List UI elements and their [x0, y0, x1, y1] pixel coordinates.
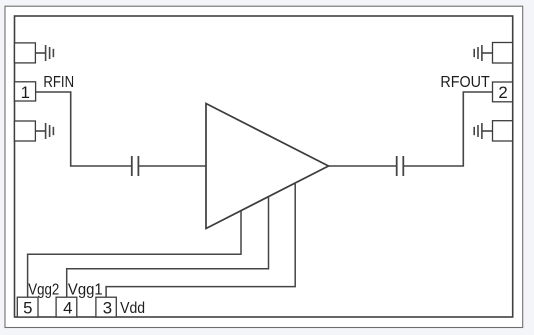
svg-text:Vgg2: Vgg2 — [28, 281, 59, 298]
svg-text:5: 5 — [23, 299, 32, 318]
svg-text:2: 2 — [498, 83, 507, 102]
svg-text:1: 1 — [21, 83, 30, 102]
svg-text:Vdd: Vdd — [120, 300, 145, 317]
svg-text:RFOUT: RFOUT — [440, 74, 489, 91]
svg-text:RFIN: RFIN — [43, 74, 74, 91]
svg-text:4: 4 — [63, 299, 72, 318]
svg-text:Vgg1: Vgg1 — [68, 281, 103, 298]
svg-text:3: 3 — [103, 299, 112, 318]
